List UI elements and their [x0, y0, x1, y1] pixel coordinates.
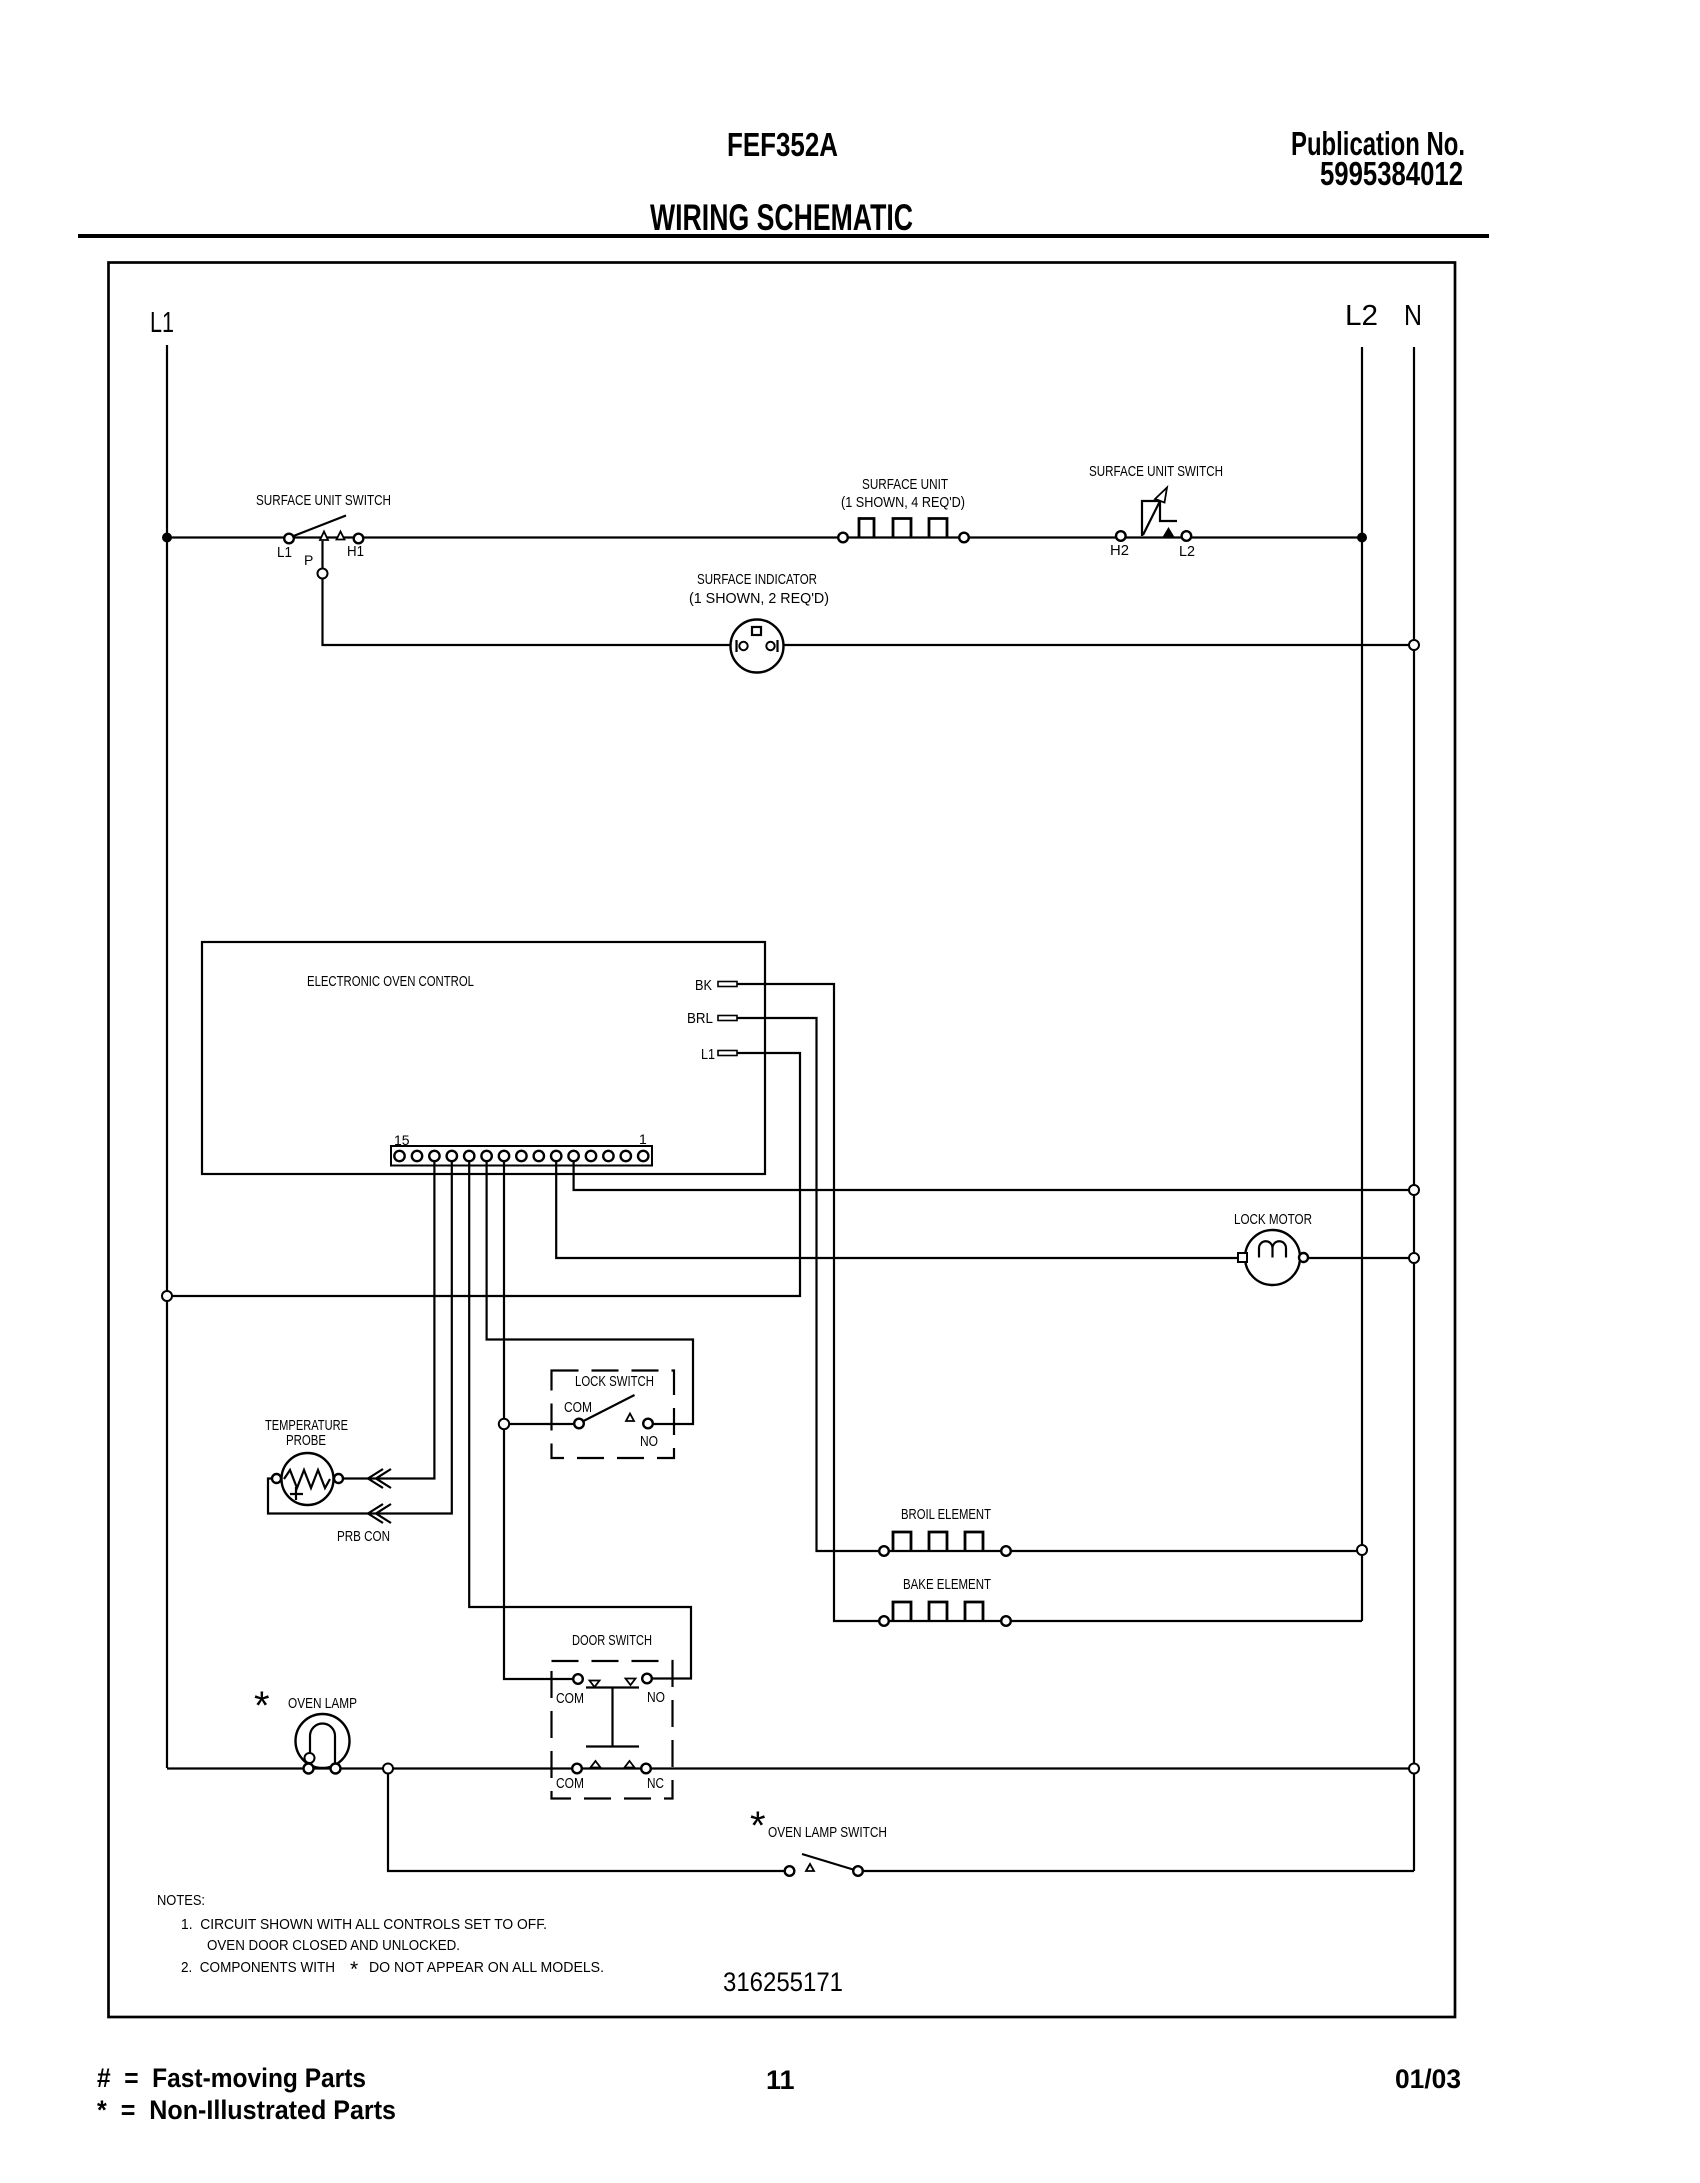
- wire L2 bus vertical: [1361, 347, 1363, 1621]
- svg-text:NO: NO: [647, 1689, 665, 1706]
- wire L1 bus vertical: [166, 345, 168, 1768]
- svg-text:5995384012: 5995384012: [1320, 155, 1463, 192]
- svg-text:01/03: 01/03: [1395, 2064, 1461, 2094]
- junction circle L1 bus mid: [162, 1291, 172, 1301]
- connector pin circles: [394, 1151, 648, 1161]
- oven lamp small inner circle: [305, 1753, 315, 1763]
- wire bake element row: [884, 1620, 1362, 1622]
- svg-text:(1 SHOWN, 4 REQ'D): (1 SHOWN, 4 REQ'D): [841, 494, 965, 511]
- svg-text:COM: COM: [556, 1690, 584, 1707]
- svg-text:H2: H2: [1110, 542, 1129, 559]
- svg-text:N: N: [1404, 300, 1422, 332]
- terminal right oven lamp switch: [853, 1866, 863, 1876]
- indicator inner right contact: [776, 640, 778, 652]
- junction circle broil at L2: [1357, 1545, 1367, 1555]
- contact triangle P: [320, 532, 328, 541]
- wire L1 pin to L1 bus: [167, 1053, 800, 1296]
- terminal NO lock switch: [643, 1419, 653, 1429]
- connector circle on P branch: [318, 569, 328, 579]
- lock motor body: [1245, 1230, 1300, 1285]
- terminal NC door bottom: [641, 1764, 651, 1774]
- svg-text:* = Non-Illustrated Parts: * = Non-Illustrated Parts: [97, 2095, 396, 2125]
- svg-text:*: *: [254, 1684, 270, 1728]
- svg-text:LOCK SWITCH: LOCK SWITCH: [575, 1373, 654, 1390]
- svg-text:SURFACE UNIT SWITCH: SURFACE UNIT SWITCH: [1089, 463, 1223, 480]
- wire pin12 to probe lower chevron: [392, 1161, 452, 1514]
- right switch blade arrow: [1143, 499, 1161, 535]
- indicator inner left contact: [735, 640, 737, 652]
- wire pin5 to N bus: [574, 1161, 1414, 1190]
- wire P branch down: [321, 541, 323, 569]
- svg-text:COM: COM: [564, 1399, 592, 1416]
- contact triangle door bottom right: [625, 1761, 635, 1768]
- svg-text:SURFACE UNIT: SURFACE UNIT: [862, 476, 948, 493]
- indicator inner top square: [752, 627, 761, 635]
- bake element terminals: [879, 1616, 889, 1626]
- wire P branch to indicator row: [323, 579, 1415, 646]
- svg-text:# = Fast-moving Parts: # = Fast-moving Parts: [97, 2063, 366, 2093]
- contact triangle lock switch: [626, 1414, 634, 1422]
- svg-text:PROBE: PROBE: [286, 1432, 326, 1449]
- terminal H2 of right switch: [1116, 531, 1126, 541]
- junction circle lamp branch: [383, 1764, 393, 1774]
- terminal COM lock switch: [574, 1419, 584, 1429]
- svg-text:NOTES:: NOTES:: [157, 1892, 205, 1909]
- wire pin9 down to door switch COM: [504, 1161, 578, 1679]
- connector strip box: [391, 1146, 652, 1166]
- lock switch dashed box: [552, 1371, 675, 1459]
- svg-text:(1 SHOWN, 2 REQ'D): (1 SHOWN, 2 REQ'D): [689, 590, 829, 607]
- svg-text:LOCK MOTOR: LOCK MOTOR: [1234, 1211, 1312, 1228]
- svg-text:H1: H1: [347, 543, 364, 560]
- svg-text:L1: L1: [277, 544, 292, 561]
- svg-text:*: *: [750, 1804, 766, 1848]
- svg-text:OVEN DOOR CLOSED AND UNLOCKED.: OVEN DOOR CLOSED AND UNLOCKED.: [207, 1937, 460, 1954]
- svg-text:NC: NC: [647, 1775, 664, 1792]
- wire oven lamp row from L1: [167, 1767, 388, 1769]
- terminal NO door top: [642, 1674, 652, 1684]
- electronic oven control box: [202, 942, 765, 1174]
- svg-text:L2: L2: [1345, 300, 1378, 332]
- BK pin bar: [718, 982, 737, 987]
- oven lamp body: [296, 1714, 350, 1768]
- svg-text:ELECTRONIC OVEN CONTROL: ELECTRONIC OVEN CONTROL: [307, 973, 474, 990]
- wire pin6 to lock motor: [556, 1161, 1414, 1258]
- svg-text:BAKE ELEMENT: BAKE ELEMENT: [903, 1576, 991, 1593]
- svg-text:SURFACE INDICATOR: SURFACE INDICATOR: [697, 571, 817, 588]
- chevron connector upper: [368, 1469, 391, 1488]
- oven lamp right terminal: [331, 1764, 341, 1774]
- contact triangle right switch: [1164, 529, 1173, 537]
- lock motor left terminal square: [1238, 1253, 1247, 1262]
- svg-text:OVEN LAMP SWITCH: OVEN LAMP SWITCH: [768, 1824, 887, 1841]
- svg-text:COM: COM: [556, 1775, 584, 1792]
- svg-text:OVEN LAMP: OVEN LAMP: [288, 1695, 357, 1712]
- svg-text:1. CIRCUIT SHOWN WITH ALL CON: 1. CIRCUIT SHOWN WITH ALL CONTROLS SET T…: [181, 1916, 547, 1933]
- oven lamp left terminal: [304, 1764, 314, 1774]
- svg-text:15: 15: [394, 1132, 410, 1148]
- wire pin11 door switch loop: [469, 1161, 691, 1679]
- L1 pin bar: [718, 1051, 737, 1056]
- lock switch blade: [584, 1395, 635, 1421]
- lock motor right terminal: [1299, 1253, 1308, 1262]
- terminal COM door top: [573, 1674, 583, 1684]
- right switch frame: [1142, 501, 1177, 536]
- wire N bus vertical: [1413, 347, 1415, 1871]
- svg-text:WIRING SCHEMATIC: WIRING SCHEMATIC: [650, 197, 913, 238]
- svg-text:DO NOT APPEAR ON ALL MODELS.: DO NOT APPEAR ON ALL MODELS.: [369, 1959, 604, 1976]
- wire door bottom row: [388, 1767, 1414, 1769]
- probe left terminal: [272, 1474, 281, 1483]
- contact triangle door top left: [590, 1681, 600, 1688]
- broil element square-wave: [893, 1532, 983, 1551]
- svg-text:*: *: [350, 1958, 358, 1981]
- contact triangle door top right: [626, 1679, 636, 1686]
- surface indicator lamp body: [731, 620, 784, 673]
- wire probe top lead: [343, 1477, 392, 1479]
- svg-text:SURFACE UNIT SWITCH: SURFACE UNIT SWITCH: [256, 492, 391, 509]
- svg-text:L1: L1: [150, 307, 174, 339]
- switch blade (left switch): [294, 516, 347, 537]
- contact triangle oven lamp switch: [806, 1864, 814, 1871]
- surface unit element square-wave: [859, 519, 947, 538]
- lock motor m-symbol: [1259, 1241, 1286, 1257]
- svg-text:2. COMPONENTS WITH: 2. COMPONENTS WITH: [181, 1959, 335, 1976]
- junction circle door NC at N: [1409, 1764, 1419, 1774]
- chevron connector lower: [368, 1504, 391, 1523]
- svg-text:BK: BK: [695, 977, 712, 994]
- terminal left oven lamp switch: [785, 1866, 795, 1876]
- junction circle pin5 at N: [1409, 1185, 1419, 1195]
- svg-text:FEF352A: FEF352A: [727, 126, 838, 163]
- junction dot L1 top: [162, 533, 172, 543]
- surface unit element terminals: [838, 533, 848, 543]
- wire broil element row: [884, 1550, 1362, 1552]
- wire oven lamp switch to N riser: [863, 1870, 1414, 1872]
- junction circle lock COM feed: [499, 1419, 509, 1429]
- temperature probe body: [282, 1453, 334, 1505]
- svg-text:11: 11: [766, 2065, 795, 2095]
- door switch actuator: [586, 1688, 639, 1747]
- terminal COM door bottom: [572, 1764, 582, 1774]
- svg-text:316255171: 316255171: [723, 1967, 843, 1997]
- oven lamp filament U: [310, 1723, 335, 1766]
- wire BRL to broil element: [737, 1018, 884, 1551]
- contact triangle H1: [337, 532, 345, 540]
- terminal L2 of right switch: [1182, 531, 1192, 541]
- svg-text:L1: L1: [701, 1046, 715, 1063]
- probe right terminal: [334, 1474, 343, 1483]
- svg-text:BROIL ELEMENT: BROIL ELEMENT: [901, 1506, 991, 1523]
- wire pin13 to probe upper chevron: [392, 1161, 434, 1479]
- wire lock switch COM feed: [504, 1423, 579, 1425]
- BRL pin bar: [718, 1016, 737, 1021]
- junction circle lock motor at N: [1409, 1253, 1419, 1263]
- schematic border frame: [109, 263, 1456, 2018]
- wire pin10 lock switch loop: [487, 1161, 693, 1424]
- svg-text:P: P: [304, 552, 313, 568]
- svg-text:DOOR SWITCH: DOOR SWITCH: [572, 1632, 652, 1649]
- svg-text:PRB CON: PRB CON: [337, 1528, 390, 1545]
- broil element terminals: [879, 1546, 889, 1556]
- junction dot L2 top: [1357, 533, 1367, 543]
- door switch dashed box: [552, 1661, 673, 1799]
- wire probe bottom loop lead: [268, 1479, 392, 1514]
- title rule: [78, 234, 1489, 238]
- oven lamp switch blade: [802, 1854, 858, 1871]
- terminal H1 of left switch: [354, 534, 364, 544]
- contact triangle door bottom left: [591, 1761, 601, 1768]
- terminal L1 of left switch: [284, 534, 294, 544]
- right switch arrowhead: [1155, 488, 1167, 503]
- probe zigzag resistor: [284, 1470, 330, 1500]
- bake element square-wave: [893, 1602, 983, 1621]
- junction circle indicator row at N: [1409, 640, 1419, 650]
- wire lamp branch riser: [388, 1774, 789, 1872]
- svg-text:1: 1: [639, 1131, 647, 1147]
- svg-text:BRL: BRL: [687, 1010, 713, 1027]
- svg-text:NO: NO: [640, 1433, 658, 1450]
- svg-text:L2: L2: [1179, 543, 1195, 560]
- wire BK to bake element: [737, 984, 884, 1621]
- wire top row L1 to L2: [167, 536, 1362, 538]
